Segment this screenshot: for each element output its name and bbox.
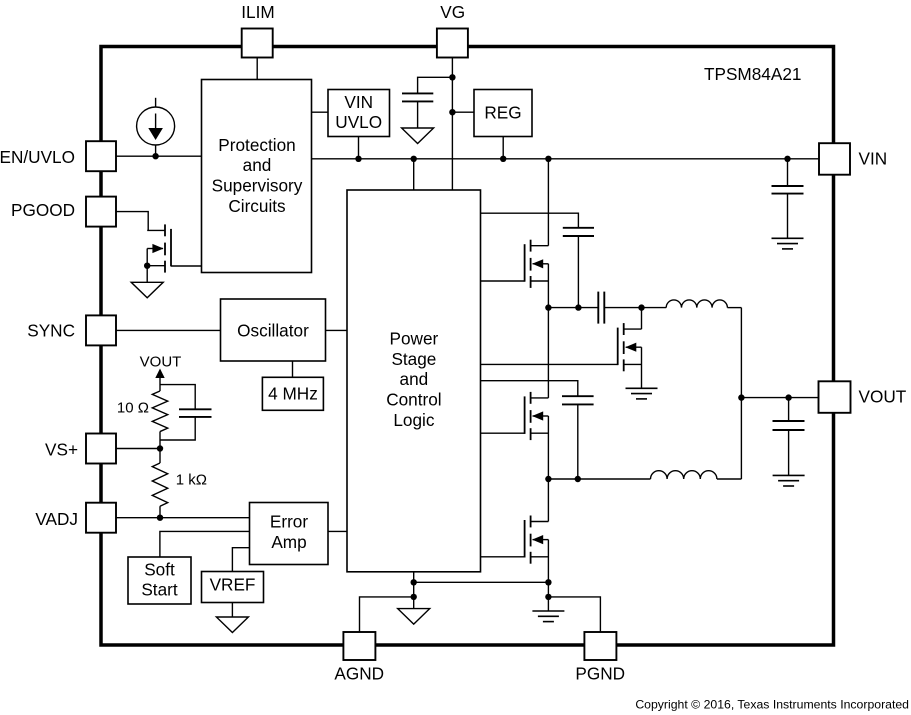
pin VG (437, 2, 468, 57)
wire VADJ to error amp (116, 517, 250, 519)
capacitor VOUT (773, 398, 805, 476)
node VOUT feedback arrow (155, 369, 164, 392)
pin ILIM (241, 2, 274, 57)
resistor 10 ohm (152, 391, 167, 432)
wire to AGND pin (360, 597, 414, 632)
node VIN UVLO on rail (355, 156, 361, 162)
capacitor feedback (179, 409, 212, 417)
pin VIN (819, 143, 887, 175)
transistor Q3 series (618, 323, 642, 371)
svg-text:AGND: AGND (334, 663, 384, 683)
node Q5 source b (545, 594, 551, 600)
pin VOUT (819, 381, 907, 413)
transistor Q1 PGOOD (mirrored) (147, 224, 171, 272)
node output cap (785, 394, 791, 400)
svg-text:VOUT: VOUT (859, 386, 907, 406)
node VADJ junction (157, 515, 163, 521)
svg-text:VIN: VIN (859, 148, 888, 168)
wire feedback top link (160, 385, 195, 410)
block VREF (202, 572, 264, 603)
wire node down to Q3 drain (641, 308, 643, 330)
wire SYNC to oscillator (116, 329, 221, 331)
wire feedback cap bottom (160, 417, 195, 440)
node REG on rail (500, 156, 506, 162)
wire Q1 gate to protection block (171, 265, 202, 267)
ground VREF (216, 617, 248, 633)
wire L1 to output corner (727, 307, 741, 309)
transistor Q2 high-side phase1 (525, 240, 549, 288)
wire resistor to VS+ node (159, 432, 161, 464)
block REG (474, 90, 532, 137)
wire output node to VOUT pin (741, 397, 819, 399)
node REG junction (449, 109, 455, 115)
ground Q1 source (131, 282, 163, 298)
pin AGND (334, 632, 384, 683)
inductor L1 phase1 (666, 300, 727, 308)
wire block ground to Q5 source (414, 581, 549, 583)
wire VG node to REG (452, 111, 474, 113)
wire REG down to rail (502, 137, 504, 159)
pin VADJ (35, 503, 116, 533)
wire soft start to error amp (160, 531, 250, 557)
svg-text:and: and (400, 369, 429, 389)
svg-text:Start: Start (141, 580, 178, 600)
svg-text:Protection: Protection (218, 135, 295, 155)
svg-text:ILIM: ILIM (241, 2, 274, 22)
block VIN UVLO (328, 90, 390, 137)
pin SYNC (27, 315, 116, 345)
wire Q4 gate from block (481, 432, 525, 434)
svg-text:Stage: Stage (391, 349, 436, 369)
transistor Q4 high-side phase2 (525, 392, 549, 440)
svg-text:Logic: Logic (393, 410, 434, 430)
wire Q2 body-source down to switch node and Q4 drain (547, 264, 549, 398)
svg-text:EN/UVLO: EN/UVLO (0, 147, 75, 167)
node VG junction (449, 74, 455, 80)
capacitor VG bypass (402, 93, 433, 128)
wire L2 to output corner (717, 478, 742, 480)
node block bottom b (411, 594, 417, 600)
inductor L2 phase2 (651, 471, 717, 479)
node switch2 at Q4 (545, 476, 551, 482)
svg-text:Copyright © 2016, Texas Instru: Copyright © 2016, Texas Instruments Inco… (635, 698, 909, 712)
capacitor VIN bypass (772, 159, 804, 239)
svg-text:1 kΩ: 1 kΩ (176, 472, 207, 489)
wire VG to bypass cap (418, 77, 453, 93)
wire Q1 body-source (146, 249, 148, 283)
wire VG down to power stage (451, 77, 453, 190)
wire switch node 1 (548, 307, 598, 309)
current source I1 (137, 98, 175, 156)
wire output vertical (740, 308, 742, 479)
wire VG stub (451, 58, 453, 78)
wire rail down to Q2 drain (547, 159, 549, 246)
wire Q5 gate from block (481, 556, 525, 558)
svg-text:Oscillator: Oscillator (237, 320, 309, 340)
svg-text:PGND: PGND (575, 663, 625, 683)
svg-text:VADJ: VADJ (35, 509, 78, 529)
node VS+ junction (157, 445, 163, 451)
wire Q2 gate from block (481, 280, 525, 282)
node power feed on rail (411, 156, 417, 162)
svg-text:10 Ω: 10 Ω (117, 399, 149, 416)
node output join (738, 394, 744, 400)
wire block to bootstrap cap C1 (481, 213, 579, 228)
wire VS+ pin (116, 448, 160, 450)
wire oscillator to block (326, 329, 348, 331)
block soft start (128, 557, 191, 604)
block 4 MHz (262, 377, 323, 410)
node VIN cap on rail (784, 156, 790, 162)
pin PGOOD (11, 197, 116, 227)
svg-text:TPSM84A21: TPSM84A21 (704, 64, 801, 84)
node FET drain feed on rail (545, 156, 551, 162)
wire Q4 source to Q5 drain (547, 416, 549, 522)
wire EN/UVLO to protection block (116, 155, 202, 157)
block oscillator (221, 299, 326, 361)
wire PGOOD to transistor drain (116, 212, 148, 231)
svg-text:VREF: VREF (210, 575, 256, 595)
node block bottom a (411, 579, 417, 585)
svg-text:PGOOD: PGOOD (11, 200, 75, 220)
wire error amp output (328, 530, 347, 532)
svg-text:Circuits: Circuits (228, 196, 285, 216)
wire series cap to node (604, 307, 666, 309)
block power stage and control logic (347, 190, 481, 572)
pin VS+ (45, 434, 116, 464)
ground Q5 source (532, 611, 564, 622)
wire block to bootstrap cap C3 (481, 381, 578, 397)
ground Q3 source (626, 388, 658, 399)
svg-text:Control: Control (386, 390, 441, 410)
wire to PGND pin (548, 597, 600, 632)
ground VG cap (402, 128, 434, 144)
node EN/UVLO junction (152, 153, 158, 159)
svg-text:Error: Error (270, 512, 308, 532)
svg-text:Supervisory: Supervisory (212, 176, 303, 196)
resistor 1 kohm (152, 463, 167, 506)
pin EN/UVLO (0, 141, 116, 171)
capacitor C1 bootstrap (563, 228, 594, 308)
svg-text:and: and (243, 155, 272, 175)
svg-text:VIN: VIN (344, 92, 373, 112)
pin PGND (575, 632, 625, 683)
ground VIN cap (772, 238, 804, 249)
outer border frame (101, 47, 834, 646)
wire VREF ground stub (231, 603, 233, 618)
wire ILIM stub (256, 58, 258, 81)
node Q1 source junction (144, 263, 150, 269)
node switch1 at Q2 (545, 304, 551, 310)
svg-text:4 MHz: 4 MHz (268, 384, 318, 404)
wire Q3 source to ground (641, 347, 643, 388)
wire error amp to VREF (232, 548, 249, 572)
wire protection block to VIN UVLO (312, 111, 329, 113)
ground VOUT cap (773, 475, 805, 486)
block error amp (250, 503, 329, 565)
capacitor C3 bootstrap (562, 396, 594, 479)
transistor Q5 low-side (525, 516, 549, 564)
wire switch node 2 (548, 478, 650, 480)
wire oscillator to 4MHz (292, 361, 294, 377)
svg-text:VG: VG (440, 2, 465, 22)
node switch2 at C3 (575, 476, 581, 482)
wire Q5 source to ground (547, 540, 549, 611)
ground block bottom (398, 609, 430, 625)
wire Q3 gate from block (481, 363, 618, 365)
svg-text:VOUT: VOUT (140, 353, 182, 370)
svg-text:VS+: VS+ (45, 440, 78, 460)
svg-text:SYNC: SYNC (27, 321, 75, 341)
wire VIN rail (312, 158, 820, 160)
svg-text:REG: REG (484, 103, 521, 123)
svg-text:Amp: Amp (271, 532, 306, 552)
wire VIN UVLO down to rail (358, 137, 360, 159)
svg-text:UVLO: UVLO (335, 112, 382, 132)
block protection and supervisory circuits (202, 80, 312, 273)
wire 1k to VADJ node (159, 506, 161, 518)
svg-text:Power: Power (390, 329, 439, 349)
node Q5 source a (545, 579, 551, 585)
wire block bottom to ground (413, 572, 415, 609)
wire rail down to power stage block (413, 159, 415, 190)
svg-text:Soft: Soft (144, 559, 175, 579)
capacitor C2 series (598, 292, 604, 324)
node switch1 at C1 (575, 304, 581, 310)
node series cap right (638, 304, 644, 310)
